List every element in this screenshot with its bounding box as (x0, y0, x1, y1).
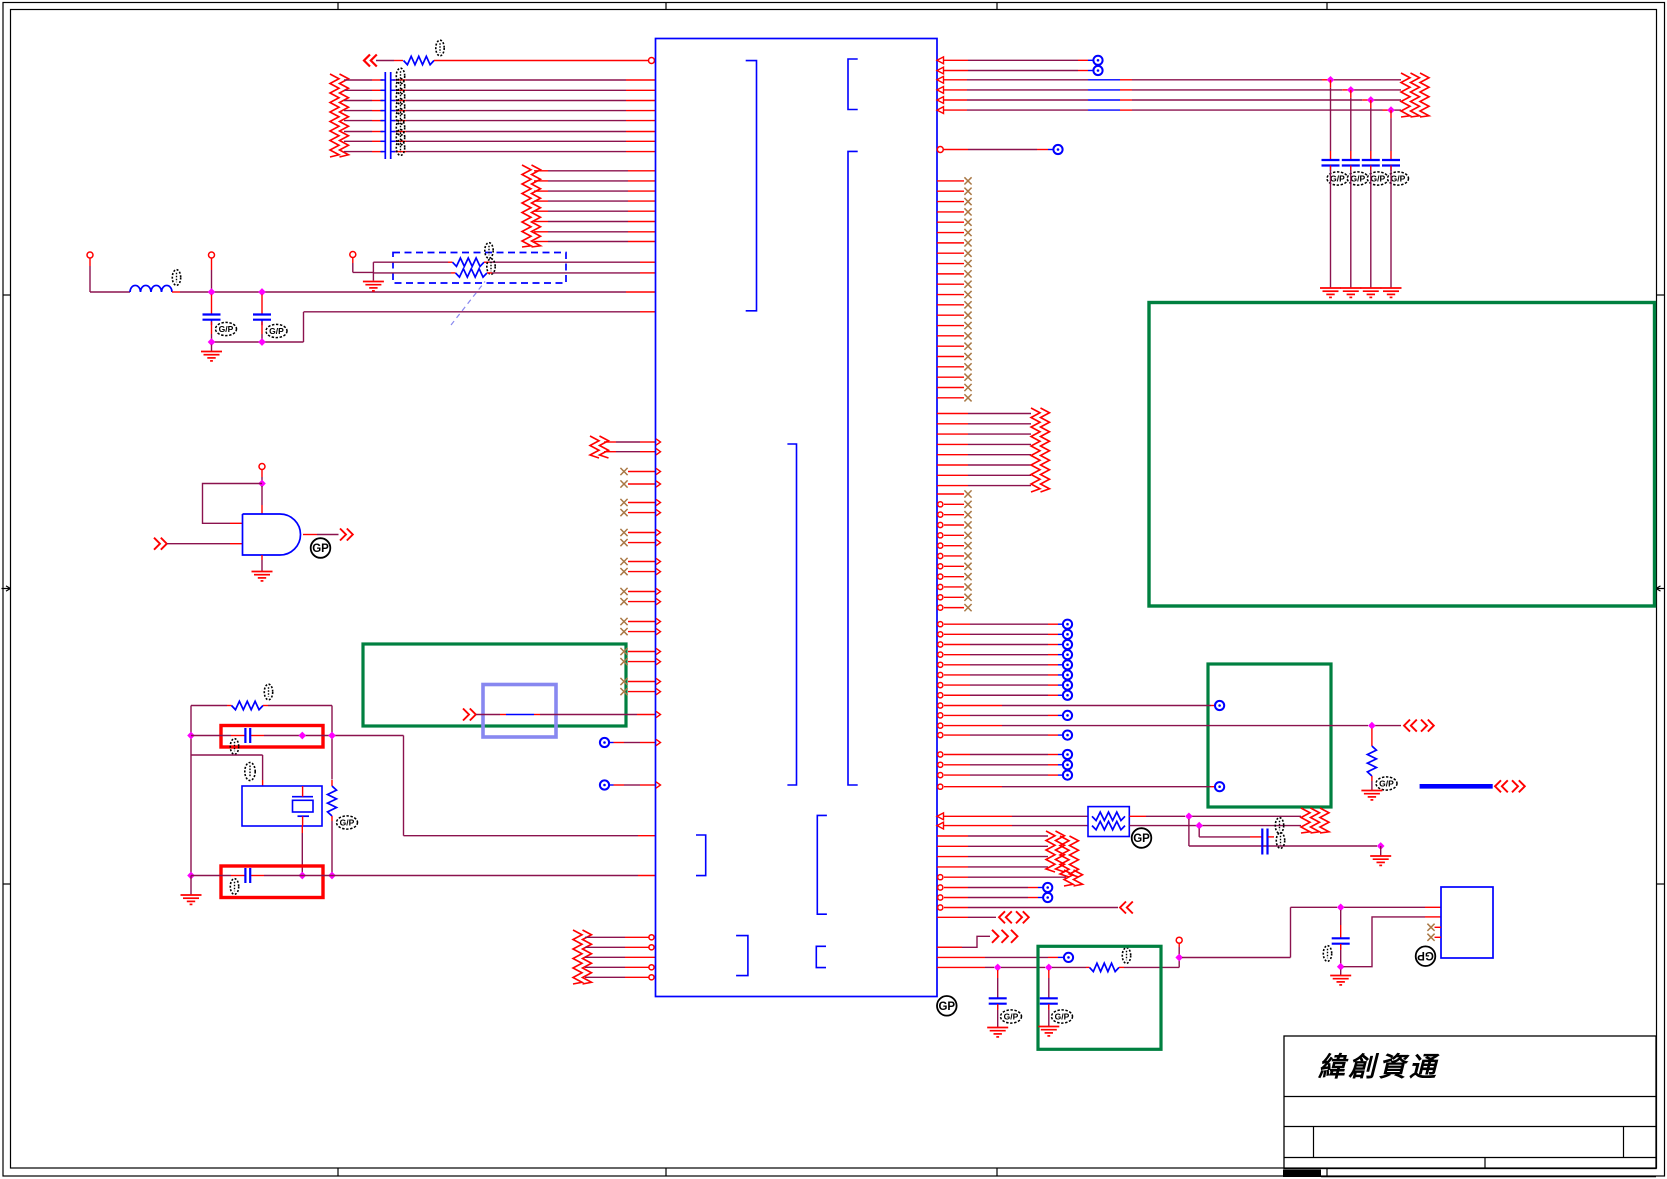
wire osc2 to IC (332, 875, 638, 877)
wire xtal top a (191, 705, 227, 707)
pin arrow right y60 (937, 57, 944, 64)
wire C8 bot (1340, 944, 1342, 950)
wire RJ3 drop (1198, 829, 1200, 837)
pin arrow right y70 (937, 67, 944, 74)
wire cap gnd drop 2 (1350, 166, 1352, 171)
no-connect pin right 21 (937, 384, 972, 391)
wire group2 row 1 (534, 170, 548, 172)
IC U1 internal bracket 6 (817, 815, 827, 914)
wire net907 run (1291, 906, 1338, 908)
wire P3 riser (372, 262, 374, 280)
label R4 G/P (1376, 777, 1397, 790)
wire Rt8 (938, 691, 1072, 700)
termination zigzag left bundle (330, 74, 349, 157)
no-connect pin right 13 (937, 301, 972, 308)
wire Rzz4 (937, 866, 968, 868)
termination zigzag row5 (1064, 870, 1083, 886)
resistor R4 (1367, 746, 1376, 776)
label RP1 GP (1132, 828, 1152, 848)
svg-text:G/P: G/P (219, 324, 234, 334)
IC U1 left pin arrows (656, 439, 661, 788)
off-page connector left W1 (364, 55, 377, 67)
no-connect J1 pin4 (1427, 934, 1441, 941)
capacitor array CP1 plate B (390, 72, 392, 159)
label Y1 designator (245, 763, 255, 781)
title block row line 2 (1284, 1126, 1656, 1128)
inductor L1 (130, 285, 172, 292)
connector J1 box (1441, 887, 1493, 958)
label L1 (172, 270, 180, 286)
wire W12 (212, 341, 304, 343)
no-connect pin right 9 (937, 260, 972, 267)
capacitor C1 stub top (211, 295, 213, 315)
wire left pin y451.7 (604, 451, 616, 453)
IC U1 internal bracket 2 (848, 59, 858, 110)
wire xtal left rail (190, 706, 192, 734)
wire C8 drop (1340, 910, 1342, 925)
wire cap drop 3 (1370, 100, 1372, 108)
no-connect pin right 20 (937, 374, 972, 381)
capacitor C2 stub top (261, 295, 263, 315)
terminal T7 (1053, 145, 1062, 154)
ground GND7 (987, 1028, 1008, 1037)
no-connect pin right 8 (937, 250, 972, 257)
wire bus row 2 (344, 89, 372, 91)
wire Rz1 (937, 413, 968, 415)
junction RJ3 (1195, 822, 1203, 830)
pin arrow right row4 (937, 87, 944, 94)
wire Rt13 (938, 771, 1072, 780)
svg-text:GP: GP (1417, 949, 1434, 961)
wire Wnet967 riser (1178, 958, 1180, 968)
callout dashed leader (451, 282, 485, 326)
pin right cx 7 (938, 552, 972, 559)
svg-text:緯創資通: 緯創資通 (1317, 1052, 1440, 1082)
wire xtal c4 row (191, 875, 231, 877)
junction GJ5 (1337, 963, 1345, 971)
wire W12 riser (303, 312, 305, 342)
label RN2 (487, 259, 495, 275)
wire W10a (90, 291, 130, 293)
title block divider c (1484, 1158, 1486, 1169)
no-connect pin left y471.5 (620, 468, 655, 475)
capacitor C3 (245, 728, 250, 743)
termination zigzag left pins (590, 436, 609, 458)
IC U1 internal bracket 8 (816, 946, 826, 967)
wire net957 riser (1290, 907, 1292, 957)
no-connect pin right 11 (937, 281, 972, 288)
pin right cx 12 (938, 604, 972, 611)
ground GND2 (363, 282, 384, 291)
wire R2w (944, 70, 968, 72)
pin right cx 2 (938, 501, 972, 508)
label CP1 row 4 (396, 99, 404, 115)
pin right cx 8 (938, 563, 972, 570)
label C7 G/P (1052, 1010, 1073, 1023)
no-connect pin right 10 (937, 270, 972, 277)
wire left pin y442 (604, 441, 616, 443)
label GP IC bottom (937, 996, 957, 1016)
junction A4 (258, 338, 266, 346)
wire group2 row 4 (534, 200, 548, 202)
svg-text:G/P: G/P (269, 326, 284, 336)
label CT1 G/P (1327, 172, 1348, 185)
svg-text:GP: GP (938, 1001, 955, 1013)
junction T4 (1347, 86, 1355, 94)
off-page connector gate out (340, 529, 353, 541)
wire xtal c1 row (191, 735, 231, 737)
wire Wnet967 d (1119, 966, 1124, 968)
wire Rz8 (937, 485, 968, 487)
resistor R3 (328, 786, 337, 873)
annotation box green GR (1208, 664, 1331, 807)
IC U1 internal bracket 5 (696, 835, 706, 876)
wire gate loop (203, 484, 263, 524)
termination zigzag bottom-left (573, 930, 592, 984)
termination zigzag mid-left (522, 165, 541, 247)
label CP1 row 3 (396, 89, 404, 105)
wire RJ1 drop (1371, 729, 1373, 747)
wire bus row 1 (344, 79, 372, 81)
wire Rt3 (938, 640, 1072, 649)
junction B4 (187, 872, 195, 880)
crystal Y1 element (292, 786, 313, 826)
ground GND6 (1370, 856, 1391, 865)
no-connect pin left y621.5 (620, 618, 655, 625)
resistor R5 (1090, 963, 1120, 971)
wire gate out (303, 534, 317, 536)
wire cap gnd drop 1 (1330, 166, 1332, 171)
IC U1 internal bracket 7 (736, 936, 748, 976)
wire Rt11 (938, 750, 1072, 759)
annotation box green GB (1038, 946, 1161, 1049)
border segment bottom (1321, 1176, 1656, 1178)
wire Rt4 (938, 650, 1072, 659)
wire Rz2 (937, 423, 968, 425)
pin right cx 1 (937, 490, 972, 497)
label C2 G/P (266, 324, 287, 337)
wire Wnet967 b (1001, 966, 1045, 968)
junction RJ1 (1368, 722, 1376, 730)
ground GNDT1 (1320, 288, 1341, 297)
junction T6 (1387, 106, 1395, 114)
capacitor CT3 (1362, 160, 1380, 171)
no-connect pin right 2 (937, 188, 972, 195)
pin circle right y149 (937, 147, 943, 153)
wire W11 (304, 311, 641, 313)
capacitor array CP1 ticks (381, 80, 396, 152)
junction RJ4 (1377, 842, 1385, 850)
off-page connector W714 (463, 709, 476, 721)
wire osc1 to IC (404, 835, 639, 837)
no-connect pin right 1 (937, 177, 972, 184)
junction T5 (1367, 96, 1375, 104)
termination zigzag top-right (1401, 73, 1429, 117)
border black mark bottom-left of title (1283, 1170, 1321, 1178)
bus segment blue thick (1420, 784, 1493, 789)
ground GND8 (1038, 1027, 1059, 1036)
no-connect pin left y661.6 (620, 658, 655, 665)
wire Rjog red (937, 946, 962, 948)
wire R4 bot (1371, 776, 1373, 781)
no-connect pin left y681.5 (620, 678, 655, 685)
wire Rz7 (937, 474, 968, 476)
pin right cx 4 (938, 521, 972, 528)
wire Rzz1 (937, 835, 968, 837)
wire Rt1 (938, 620, 1072, 629)
ground GNDT4 (1381, 288, 1402, 297)
wire RJ2 run (1189, 845, 1377, 847)
no-connect pin right 4 (937, 208, 972, 215)
wire Rlong909 (938, 905, 1118, 910)
capacitor C7 drop (1048, 970, 1050, 978)
label C3 (230, 739, 238, 755)
label R5 (1122, 948, 1130, 964)
wire P2 drop (211, 258, 213, 270)
wire bottom-left pin y957.3 (585, 956, 656, 958)
pin circle U1 left y60 (649, 58, 655, 64)
no-connect pin right 6 (937, 229, 972, 236)
wire Rgb1 (938, 701, 1224, 710)
note box XT1 (221, 726, 323, 748)
termination zigzag RB pair (1301, 808, 1329, 833)
wire P3 run (353, 271, 374, 273)
wire bottom-left pin y967.3 (585, 965, 654, 970)
label CP1 row 7 (396, 130, 404, 146)
junction GJ1 (994, 964, 1002, 972)
no-connect J1 pin3 (1427, 924, 1441, 931)
off-page connector y909 (1120, 902, 1133, 914)
annotation box green GL (363, 644, 626, 726)
off-page connector bus (1495, 780, 1508, 792)
pin arrow right y826 (937, 822, 944, 829)
ground GND9 stub (1340, 970, 1342, 976)
wire bus row 3 (344, 100, 372, 102)
capacitor C6 drop (997, 970, 999, 978)
note box XT2 (221, 866, 323, 898)
wire Rtop5 (944, 99, 967, 101)
IC U1 internal bracket 1 (746, 61, 757, 311)
wire gate top drop (261, 486, 263, 505)
pin arrow right row6 (937, 107, 944, 114)
wire Rt10 (938, 731, 1072, 740)
wire xtal gnd stub (190, 876, 192, 895)
series box dashed (393, 253, 566, 284)
wire RJ2 drop (1188, 819, 1190, 846)
label CP1 row 2 (396, 79, 404, 95)
junction A5 (258, 480, 266, 488)
wire net917 red (1425, 916, 1441, 918)
wire cap gnd drop 4 (1390, 166, 1392, 171)
terminal T20 (1064, 953, 1073, 962)
wire Rtop4 (944, 89, 967, 91)
wire net917 run (1344, 917, 1426, 967)
wire C6 gnd (997, 1004, 999, 1010)
wire Rtop6 (944, 109, 967, 111)
svg-text:G/P: G/P (1391, 174, 1406, 184)
wire Rnet «» y725 (938, 723, 1401, 728)
wire Rtop3 (944, 79, 967, 81)
capacitor array CP1 plate A (384, 72, 386, 159)
no-connect pin left y484 (620, 480, 655, 487)
border tick top (996, 3, 998, 10)
border tick bottom (337, 1168, 339, 1176)
IC U1 internal bracket 4 (787, 444, 796, 785)
wire RN2b (487, 272, 492, 274)
off-page connector triple (992, 930, 1018, 943)
capacitor C7 (1040, 998, 1058, 1009)
capacitor C1 stub bot (211, 322, 213, 335)
title block divider a (1313, 1127, 1315, 1158)
ground GND3 (252, 572, 273, 581)
no-connect pin left y502.5 (620, 499, 655, 506)
junction A3 (208, 338, 216, 346)
wire R1 (944, 59, 968, 61)
wire cap drop 4 (1390, 110, 1392, 118)
wire R7 (944, 149, 968, 151)
title block divider b (1623, 1127, 1625, 1158)
wire gate in2 (167, 543, 230, 545)
termination zigzag rows34 (1060, 836, 1079, 877)
wire RB1b (1129, 815, 1146, 817)
wire xtal top b (263, 705, 268, 707)
junction GJ2 (1045, 964, 1053, 972)
svg-text:GP: GP (312, 543, 329, 555)
wire bus row 6 (344, 131, 372, 133)
wire C5 stub (1268, 836, 1274, 838)
wire P3 drop (352, 258, 354, 264)
border tick left (3, 294, 11, 296)
wire Rzz3 (937, 856, 968, 858)
pin right cx 11 (938, 594, 972, 601)
wire group2 row 6 (534, 221, 548, 223)
capacitor C1 (203, 315, 221, 326)
termination zigzag right mid (1031, 408, 1050, 492)
ground GND4 (181, 895, 202, 904)
no-connect pin left y601.6 (620, 598, 655, 605)
resistor RN1 (453, 258, 485, 266)
no-connect pin right 5 (937, 219, 972, 226)
no-connect pin right 3 (937, 198, 972, 205)
label CP1 row 8 (396, 140, 404, 156)
junction B3 (328, 732, 336, 740)
wire cap drop 1 (1330, 80, 1332, 88)
no-connect pin right 17 (937, 343, 972, 350)
no-connect pin left y631.6 (620, 628, 655, 635)
wire osc1 drop (403, 736, 405, 836)
wire group2 row 2 (534, 180, 548, 182)
resistor RP1b (1092, 821, 1125, 829)
wire Wnet967 c (1052, 966, 1086, 968)
pin right cx 5 (938, 532, 972, 539)
border arrow left (2, 586, 11, 591)
wire cap drop 2 (1350, 90, 1352, 98)
wire RN1b (484, 261, 489, 263)
no-connect pin left y561.5 (620, 558, 655, 565)
oscillator box Y1 (242, 786, 322, 826)
svg-text:G/P: G/P (1330, 174, 1345, 184)
label C5a (1275, 818, 1283, 834)
label CT2 G/P (1347, 172, 1368, 185)
wire gate top stub (261, 470, 263, 478)
wire Rt7 (938, 681, 1072, 690)
wire xtal right rail (331, 706, 333, 734)
terminal P1 (87, 252, 93, 258)
wire RJ4 stub (1380, 846, 1382, 856)
ground GND9 (1330, 976, 1351, 985)
label CT4 G/P (1388, 172, 1409, 185)
wire Rbc1 (938, 883, 1053, 892)
border arrow right (1656, 586, 1665, 591)
wire RJ3 run (1199, 836, 1250, 838)
terminal P2 (209, 252, 215, 258)
wire Rt2 (938, 630, 1072, 639)
ground GND1 (201, 345, 222, 361)
junction GJ4 (1337, 903, 1345, 911)
capacitor CT1 (1322, 160, 1340, 171)
junction B5 (298, 872, 306, 880)
no-connect pin left y542.6 (620, 539, 655, 546)
wire Rt12 (938, 760, 1072, 769)
wire Rt9 (938, 711, 1072, 720)
title block row line 3 (1284, 1157, 1656, 1159)
off-page connector y725 (1404, 720, 1417, 732)
label CP1 row 6 (396, 120, 404, 136)
terminal P4 (259, 464, 265, 470)
capacitor C2 (253, 315, 271, 326)
junction A1 (208, 288, 216, 296)
label GP gate (311, 538, 331, 558)
wire bus row 4 (344, 110, 372, 112)
wire W10b (172, 291, 180, 293)
capacitor C6 (989, 998, 1007, 1009)
wire Rt6 (938, 670, 1072, 679)
wire bus row 7 (344, 140, 372, 142)
terminal T2 (1093, 66, 1102, 75)
op-amp U2 AND gate (243, 514, 301, 555)
wire xtal row2 drop (262, 755, 264, 780)
wire xtal c2 drop (301, 826, 303, 833)
border tick bottom (996, 1168, 998, 1176)
resistor RP1a (1092, 812, 1125, 820)
capacitor C5 (1262, 829, 1267, 855)
border tick top (665, 3, 667, 10)
ground GND5 (1361, 791, 1382, 800)
capacitor CT2 (1342, 160, 1360, 171)
no-connect pin left y512.6 (620, 509, 655, 516)
svg-text:G/P: G/P (1379, 779, 1394, 789)
border tick right (1657, 883, 1665, 885)
junction B6 (328, 872, 336, 880)
wire Rjog (937, 936, 990, 947)
label CT3 G/P (1367, 172, 1388, 185)
label CP1 row 5 (396, 109, 404, 125)
wire Rz3 (937, 433, 968, 435)
resistor RN2 (456, 269, 488, 277)
wire W714 (476, 714, 500, 716)
wire W1b (434, 60, 649, 62)
terminal pin left y742.5 (600, 738, 656, 747)
label C8 (1323, 946, 1331, 962)
border tick right (1657, 294, 1665, 296)
wire P5 stub (1178, 943, 1180, 947)
svg-text:G/P: G/P (1004, 1012, 1019, 1022)
no-connect pin left y691.6 (620, 688, 655, 695)
wire Rgb2 (938, 782, 1224, 791)
wire Rbc2 (938, 893, 1053, 902)
wire group2 row 7 (534, 231, 548, 233)
wire Rterm957 (937, 956, 985, 958)
